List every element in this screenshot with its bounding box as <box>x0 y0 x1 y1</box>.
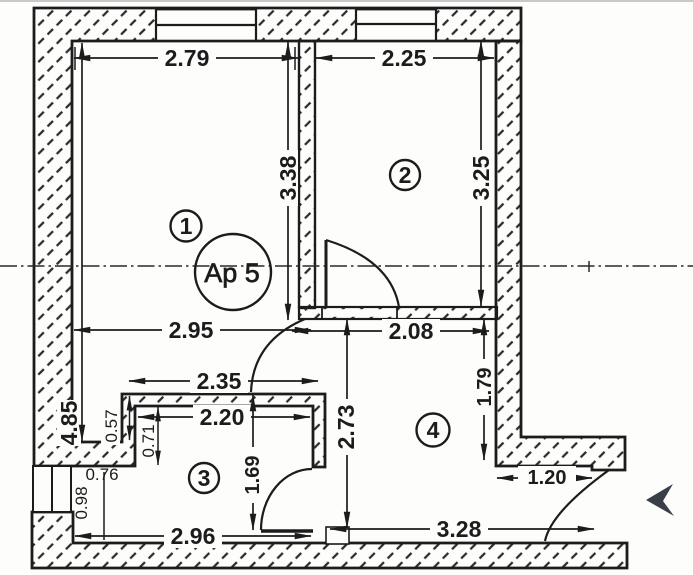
dim 2.73 (vertical) <box>333 319 359 528</box>
svg-text:2.73: 2.73 <box>333 405 359 450</box>
dim 4.85 (vertical, left) <box>56 43 82 446</box>
wall below room 2 (between room 2 and hall 4) <box>299 307 497 319</box>
dim 0.71 (small, vertical) <box>139 407 158 465</box>
door D2 (room 2) leaf <box>325 240 328 307</box>
top wall + left wall + room 3 upper walls (merged) <box>34 8 521 467</box>
dim 2.08 <box>292 318 489 344</box>
dim 0.98 (small, vertical) <box>72 472 104 540</box>
svg-text:1.20: 1.20 <box>528 467 567 489</box>
lower-left wall + bottom wall <box>32 512 627 568</box>
svg-text:1: 1 <box>180 213 193 239</box>
door D3 (room 3) leaf <box>261 529 313 532</box>
room circle 2 <box>390 160 420 190</box>
dim 2.95 <box>74 317 311 343</box>
svg-text:3: 3 <box>198 465 211 491</box>
svg-text:1.79: 1.79 <box>474 368 496 407</box>
window W2 (top wall over room 2) <box>356 9 436 41</box>
svg-text:3.38: 3.38 <box>275 155 301 200</box>
svg-text:2.20: 2.20 <box>200 404 245 430</box>
room circle 4 <box>417 414 450 447</box>
dim 2.79 <box>74 45 298 71</box>
window W3 in left wall <box>33 466 71 512</box>
dim 1.69 (vertical) <box>242 395 264 530</box>
door D3 (room 3) arc <box>261 469 312 530</box>
threshold gap in bottom wall below wall 3/4 <box>326 527 349 544</box>
centerline (dash-dot) <box>0 265 693 267</box>
doorway gap in wall below room 2 <box>322 309 397 317</box>
door D1 (hall) arc <box>251 319 305 392</box>
svg-text:Ap 5: Ap 5 <box>204 258 260 288</box>
dim 2.35 <box>129 368 318 394</box>
apartment label Ap 5 <box>195 234 271 310</box>
entrance arrow (black) <box>646 484 674 516</box>
dim 1.79 (vertical) <box>473 319 496 460</box>
svg-text:3.28: 3.28 <box>437 516 482 542</box>
dim 3.28 <box>330 516 594 542</box>
svg-text:0.76: 0.76 <box>85 465 118 484</box>
svg-text:0.71: 0.71 <box>139 424 158 457</box>
dim 0.76 (small) <box>85 465 118 484</box>
svg-text:2.96: 2.96 <box>171 523 216 549</box>
svg-text:2.35: 2.35 <box>197 368 242 394</box>
svg-text:0.57: 0.57 <box>102 409 121 442</box>
partition wall between rooms 1 and 2 <box>299 41 315 308</box>
centerline tick <box>588 261 590 272</box>
svg-text:2.08: 2.08 <box>389 318 434 344</box>
right wall + lower-right wing wall <box>496 41 625 470</box>
dim 2.25 <box>316 45 494 71</box>
dim 3.25 (vertical) <box>468 41 494 306</box>
scan edge shading top <box>0 0 693 2</box>
svg-text:4: 4 <box>427 417 440 443</box>
dim 2.20 <box>138 404 310 430</box>
svg-text:2: 2 <box>399 162 412 188</box>
svg-text:3.25: 3.25 <box>468 155 494 200</box>
room circle 1 <box>171 211 202 242</box>
dim 1.20 <box>497 466 592 490</box>
entry door arc <box>545 470 609 541</box>
svg-text:4.85: 4.85 <box>56 400 82 445</box>
dim 2.96 <box>75 523 311 549</box>
svg-text:2.95: 2.95 <box>169 317 214 343</box>
svg-text:0.98: 0.98 <box>72 486 91 519</box>
door D2 (room 2) arc <box>326 240 399 307</box>
dim 3.38 (vertical) <box>275 42 301 320</box>
svg-text:2.79: 2.79 <box>165 45 210 71</box>
room circle 3 <box>189 463 219 493</box>
window W1 (top wall over room 1) <box>156 9 256 41</box>
svg-text:2.25: 2.25 <box>382 45 427 71</box>
svg-text:1.69: 1.69 <box>242 456 264 495</box>
dim 0.57 (small, vertical) <box>101 396 130 445</box>
